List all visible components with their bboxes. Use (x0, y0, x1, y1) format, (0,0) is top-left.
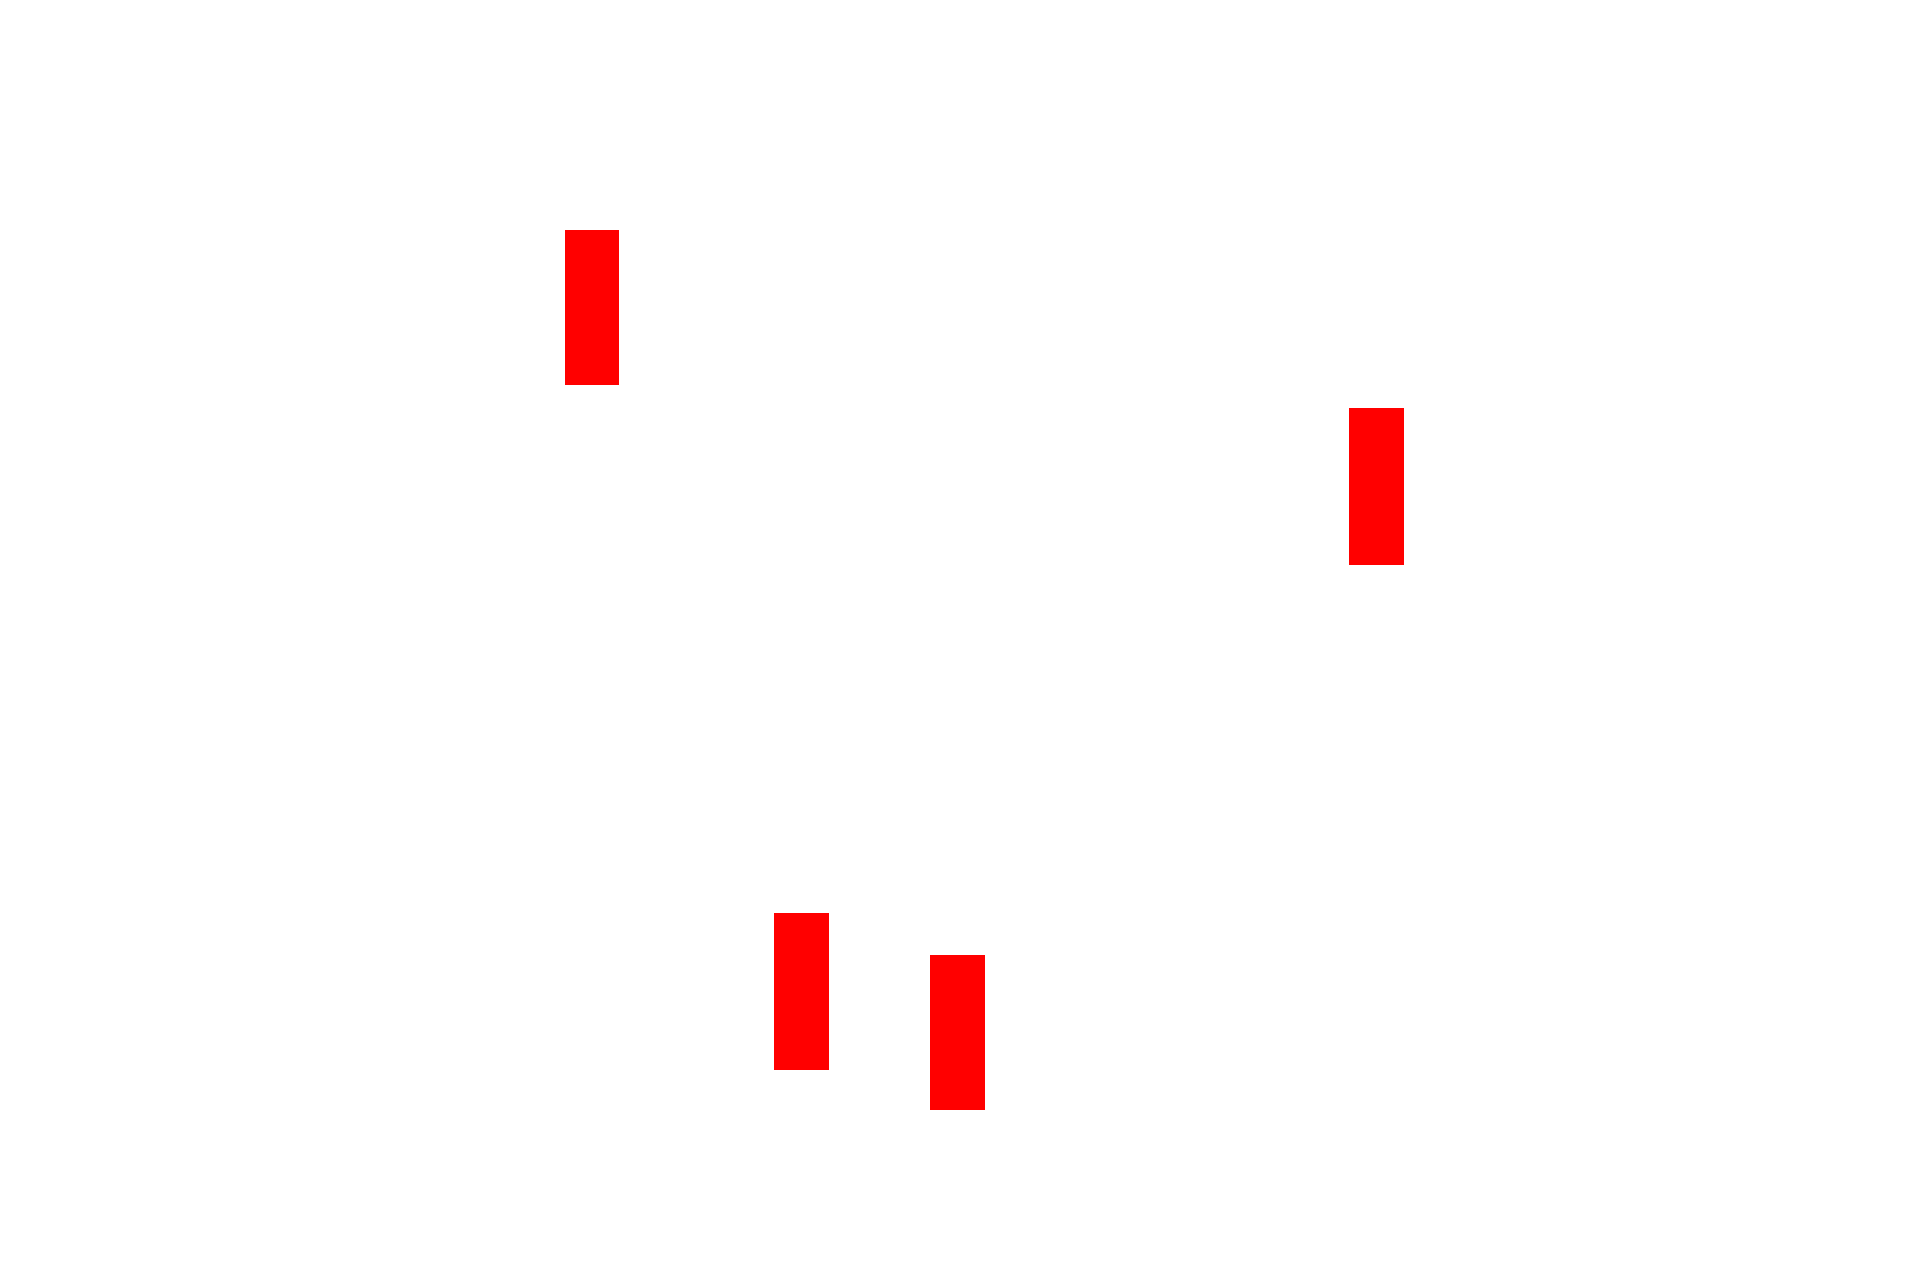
red candle body bar 4 (930, 955, 985, 1110)
red candle body bar 2 (1349, 408, 1404, 565)
red candle body bar 3 (774, 913, 829, 1070)
red candle body bar 1 (565, 230, 619, 386)
